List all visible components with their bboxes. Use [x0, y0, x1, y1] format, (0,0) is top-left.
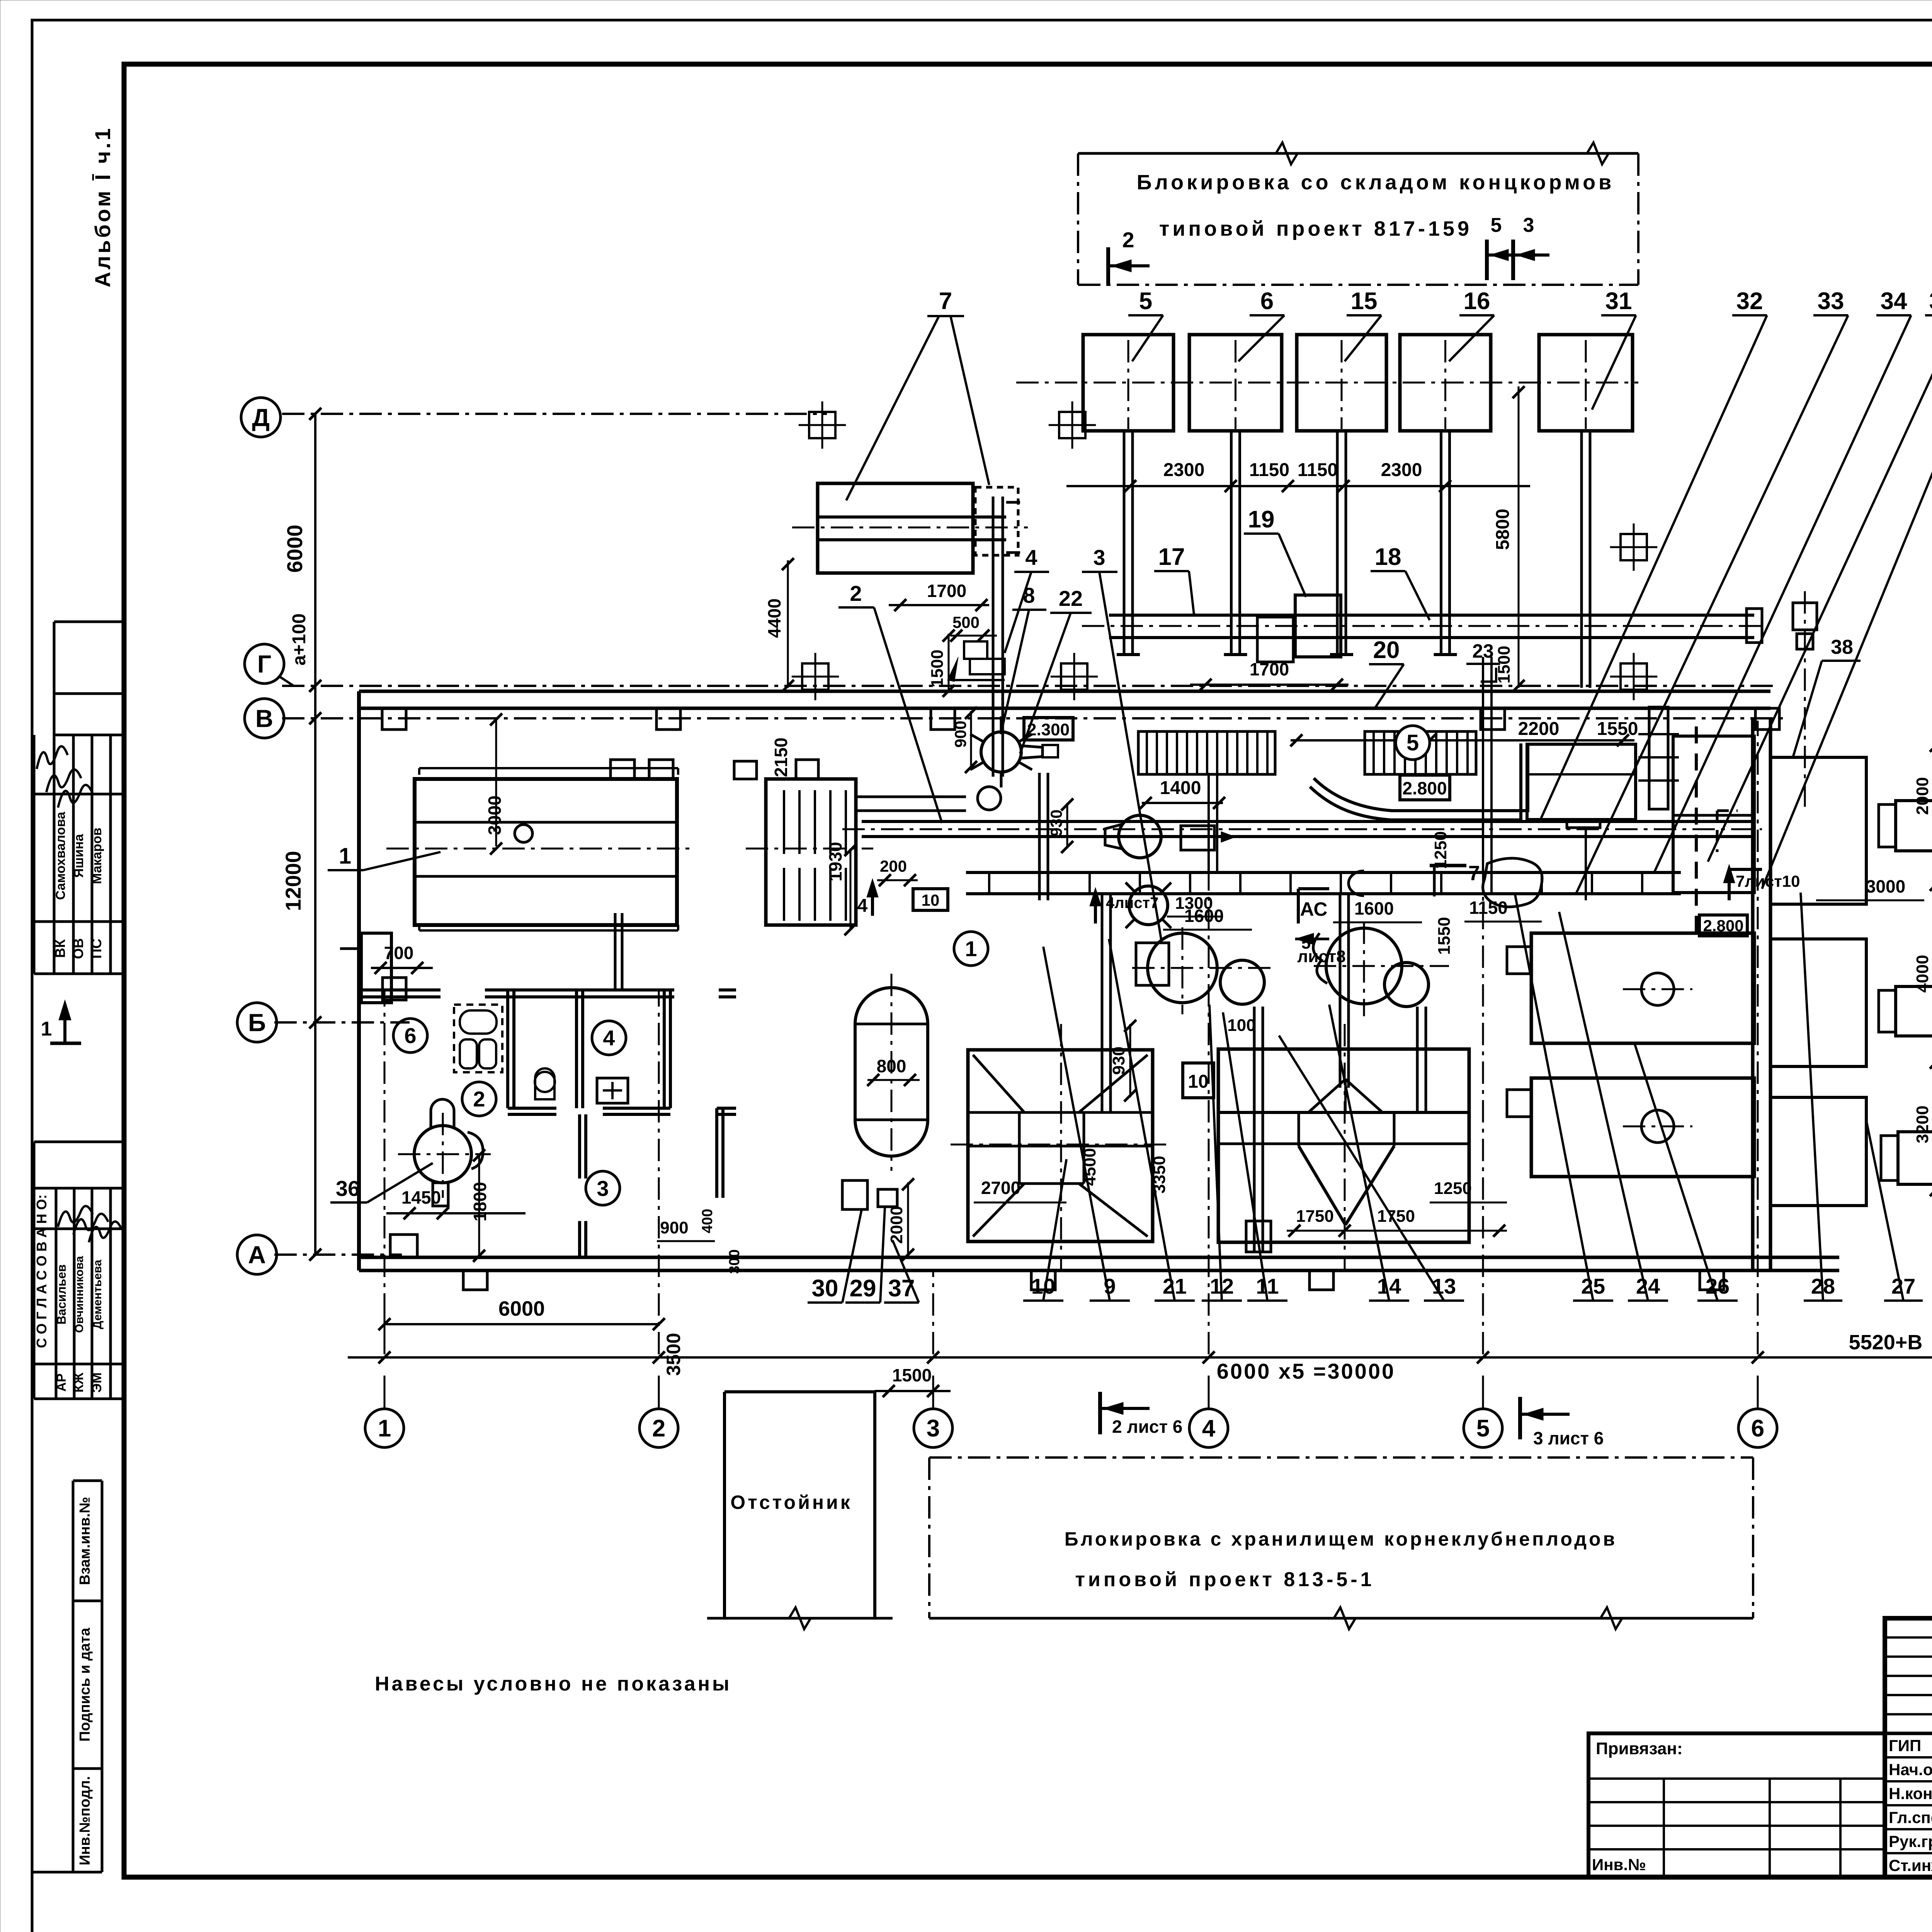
svg-text:2 лист 6: 2 лист 6 [1112, 1417, 1182, 1437]
svg-text:37: 37 [888, 1275, 915, 1302]
svg-text:3: 3 [1523, 214, 1534, 236]
mixer outlet duct [1038, 773, 1041, 900]
svg-text:Рук.гр.: Рук.гр. [1889, 1832, 1932, 1850]
svg-text:33: 33 [1818, 288, 1844, 315]
south wall pilasters [463, 1270, 487, 1290]
lamp unit 3 [1898, 1132, 1932, 1184]
svg-text:1550: 1550 [1435, 917, 1454, 955]
svg-text:Овчинникова: Овчинникова [73, 1256, 86, 1333]
bottom dim line 6000x5 [348, 1356, 1932, 1359]
machine 1 outlet duct [614, 913, 617, 990]
east partition of room3 [715, 1108, 718, 1198]
svg-text:2300: 2300 [1381, 460, 1422, 480]
axis D line [282, 413, 827, 415]
svg-text:ПС: ПС [88, 939, 104, 959]
east wing units [1770, 757, 1866, 904]
vertical duct between hoppers [1253, 1007, 1256, 1252]
svg-text:24: 24 [1636, 1274, 1660, 1298]
mixer wheel lower [1129, 886, 1168, 925]
axis G line [282, 685, 1777, 687]
svg-text:Инв.№: Инв.№ [1592, 1855, 1646, 1874]
svg-text:2000: 2000 [1913, 777, 1932, 815]
svg-text:31: 31 [1605, 288, 1632, 315]
svg-text:4лист7: 4лист7 [1106, 895, 1158, 912]
svg-text:7: 7 [939, 288, 952, 315]
elevation 2.300 box [1024, 718, 1073, 740]
overhead conveyor 17-18 [1109, 614, 1754, 617]
svg-text:400: 400 [699, 1209, 716, 1233]
partition room4 west [575, 990, 578, 1108]
svg-text:2150: 2150 [771, 738, 791, 777]
svg-text:29: 29 [850, 1275, 876, 1302]
svg-text:1: 1 [339, 844, 351, 869]
svg-text:32: 32 [1736, 288, 1763, 315]
svg-text:4400: 4400 [764, 599, 784, 638]
svg-text:Г: Г [257, 650, 271, 678]
conveyor stub right of grate [856, 796, 966, 798]
svg-text:ОВ: ОВ [70, 938, 86, 959]
svg-text:Ст.инж.: Ст.инж. [1889, 1856, 1932, 1874]
privyazan block [1588, 1733, 1885, 1877]
svg-text:16: 16 [1464, 288, 1490, 315]
svg-text:Васильев: Васильев [54, 1264, 68, 1325]
svg-text:5800: 5800 [1493, 509, 1513, 550]
cloud blob [1483, 858, 1542, 907]
svg-text:3 лист 6: 3 лист 6 [1533, 1428, 1604, 1448]
svg-text:1250: 1250 [1431, 831, 1450, 869]
svg-text:6000: 6000 [498, 1297, 545, 1320]
svg-text:Взам.инв.№: Взам.инв.№ [77, 1497, 93, 1585]
small mixer circle [978, 787, 1001, 810]
svg-text:18: 18 [1375, 544, 1401, 570]
svg-text:10: 10 [1188, 1071, 1208, 1092]
svg-text:типовой проект 817-159: типовой проект 817-159 [1159, 217, 1472, 240]
svg-text:Подпись и дата: Подпись и дата [77, 1628, 93, 1742]
conveyor 7 hatched box [975, 487, 1018, 555]
svg-text:300: 300 [726, 1249, 743, 1274]
svg-text:1450: 1450 [401, 1187, 441, 1207]
partition room6 [506, 990, 509, 1108]
dim 1700 mid [1190, 684, 1349, 686]
flag 7 sheet 10 [1729, 868, 1762, 871]
room5 east dashed partition [1695, 726, 1698, 943]
flag 2 sheet 6 [1098, 1392, 1102, 1434]
machine 1 drive circle [515, 825, 532, 842]
svg-text:Дементьева: Дементьева [91, 1260, 104, 1329]
svg-text:39: 39 [1929, 288, 1932, 315]
dim 1500 near sump [875, 1390, 951, 1392]
room 5 label [1396, 726, 1430, 760]
svg-text:1: 1 [378, 1415, 391, 1442]
svg-text:1600: 1600 [1354, 898, 1394, 918]
axis circle A [237, 1235, 277, 1274]
svg-text:лист8: лист8 [1297, 947, 1346, 966]
flag 3 sheet 6 [1518, 1397, 1522, 1439]
elevation 2.800 box room5 [1400, 775, 1450, 800]
svg-text:5: 5 [1491, 214, 1502, 236]
svg-text:Н.контр.: Н.контр. [1889, 1784, 1932, 1803]
svg-text:2300: 2300 [1163, 460, 1205, 480]
svg-text:5: 5 [1406, 730, 1419, 755]
svg-text:Д: Д [252, 403, 270, 431]
svg-text:15: 15 [1351, 288, 1378, 315]
svg-text:100: 100 [1227, 1016, 1255, 1035]
svg-text:1400: 1400 [1160, 778, 1201, 798]
svg-text:6: 6 [1751, 1415, 1764, 1442]
svg-text:4: 4 [1025, 545, 1037, 570]
svg-text:27: 27 [1891, 1274, 1915, 1298]
elevator 19 box [1295, 595, 1341, 657]
svg-text:3500: 3500 [663, 1333, 684, 1376]
svg-text:Навесы условно не показаны: Навесы условно не показаны [375, 1673, 731, 1695]
dim 6000 axes 1-2 [384, 1323, 659, 1325]
svg-text:1700: 1700 [927, 581, 966, 601]
svg-text:3: 3 [927, 1415, 940, 1442]
svg-text:900: 900 [951, 721, 969, 748]
rooms north partition [361, 988, 440, 992]
title block staff rows [1885, 1756, 1932, 1759]
small valve assembly [964, 641, 987, 659]
axis circle B [237, 1003, 277, 1042]
block: link to root-crop storage [929, 1456, 1753, 1459]
left stamp: soglasovano block [34, 1141, 124, 1143]
mixer wheel 22 [981, 732, 1021, 772]
svg-text:1700: 1700 [1250, 659, 1289, 679]
northeast machines [1527, 744, 1636, 820]
north wall [359, 690, 1770, 693]
svg-text:1250: 1250 [1434, 1179, 1472, 1198]
svg-text:типовой проект 813-5-1: типовой проект 813-5-1 [1075, 1568, 1374, 1591]
svg-text:10: 10 [922, 891, 940, 909]
svg-text:19: 19 [1248, 506, 1275, 533]
room1 floor drain [390, 1235, 417, 1258]
left vertical dim chain [314, 414, 316, 1255]
svg-text:5: 5 [1476, 1415, 1490, 1442]
axis B line [274, 1021, 410, 1024]
lamp unit 1 [1896, 801, 1932, 851]
main longitudinal conveyor [862, 820, 1753, 823]
stairs hatch 2 [1365, 731, 1476, 774]
svg-text:1930: 1930 [825, 842, 845, 881]
dim 1450 [386, 1212, 526, 1214]
axis circle G [245, 644, 284, 684]
svg-text:КЖ: КЖ [71, 1372, 86, 1393]
svg-text:4: 4 [1202, 1415, 1216, 1442]
west wall [357, 691, 361, 1270]
flag 4 up [871, 885, 874, 916]
svg-text:6: 6 [404, 1024, 416, 1048]
shower cabin [454, 1005, 502, 1072]
svg-text:7лист10: 7лист10 [1736, 872, 1800, 890]
svg-text:В: В [255, 704, 273, 732]
axis V line [282, 717, 1785, 719]
svg-text:3: 3 [1093, 545, 1105, 570]
stairs hatch 1 [1138, 731, 1275, 774]
svg-text:200: 200 [880, 857, 907, 875]
left stamp: lower labels strip [73, 1480, 102, 1482]
svg-text:2700: 2700 [981, 1178, 1020, 1198]
machine 1 (mixer line) [415, 779, 677, 925]
toilet fixtures [535, 1072, 555, 1092]
svg-text:Блокировка с хранилищем ко: Блокировка с хранилищем корнеклубнеплодо… [1065, 1528, 1617, 1550]
svg-text:6000: 6000 [282, 525, 307, 573]
svg-text:6000 х5 =30000: 6000 х5 =30000 [1217, 1359, 1395, 1383]
dim 1700/500 left [889, 604, 989, 606]
svg-text:Нач.отд.: Нач.отд. [1889, 1760, 1932, 1779]
svg-text:900: 900 [660, 1218, 688, 1237]
svg-text:Макаров: Макаров [90, 828, 104, 884]
block: link to concentrate feed store [1078, 152, 1638, 155]
svg-text:А: А [248, 1241, 266, 1269]
svg-text:22: 22 [1059, 586, 1083, 611]
pump circles cluster 1 [1148, 933, 1217, 1003]
lamp unit 2 [1896, 986, 1932, 1036]
bins centerline [1016, 382, 1638, 384]
elevation 2.800 box east [1699, 915, 1747, 936]
feed bins row [1083, 335, 1173, 431]
svg-text:5520+В: 5520+В [1849, 1331, 1923, 1354]
svg-text:1300: 1300 [1175, 894, 1213, 913]
dim 700 [371, 967, 433, 969]
svg-text:2.800: 2.800 [1703, 917, 1743, 935]
column marks row [809, 412, 835, 438]
room3 west wall [578, 1114, 581, 1179]
svg-text:7: 7 [1468, 862, 1480, 885]
svg-text:2.300: 2.300 [1027, 720, 1070, 739]
svg-text:5: 5 [1139, 288, 1152, 315]
west porch step [361, 933, 391, 1003]
svg-text:1500: 1500 [892, 1365, 932, 1385]
svg-text:АР: АР [54, 1373, 69, 1391]
small box 10 center [1183, 1063, 1214, 1098]
east big machines [1531, 933, 1754, 1043]
vertical tank 800 [855, 988, 928, 1156]
svg-text:38: 38 [1831, 636, 1853, 658]
svg-text:ВК: ВК [52, 939, 68, 958]
svg-text:500: 500 [952, 613, 980, 631]
svg-text:1: 1 [41, 1018, 52, 1040]
right duct into hopper [1416, 1007, 1419, 1113]
svg-text:2: 2 [473, 1087, 485, 1111]
svg-text:С О Г Л А С О В А Н О:: С О Г Л А С О В А Н О: [34, 1194, 49, 1348]
section flags 5 and 3 [1485, 240, 1489, 280]
svg-text:4: 4 [603, 1026, 615, 1050]
bottom axis circles and risers [365, 1409, 404, 1447]
svg-text:8: 8 [1023, 583, 1035, 607]
svg-text:1500: 1500 [928, 650, 947, 687]
axis circle V [245, 699, 284, 738]
flag 4 sheet 7 [1094, 893, 1097, 923]
svg-text:12000: 12000 [281, 851, 305, 911]
small boxes near 29 30 37 [842, 1180, 867, 1209]
left stamp: upper tables [54, 621, 124, 623]
svg-text:Инв.№подл.: Инв.№подл. [77, 1776, 93, 1865]
svg-text:4000: 4000 [1913, 955, 1932, 993]
conveyor gear box [1181, 826, 1214, 850]
svg-text:ЭМ: ЭМ [90, 1372, 104, 1393]
east wall [1751, 718, 1755, 1270]
vertical drops mid [1207, 774, 1210, 872]
pear vessel on conveyor [1119, 815, 1161, 858]
svg-text:а+100: а+100 [289, 614, 310, 666]
room 5 enclosure [1314, 743, 1528, 811]
dim chain 2300-1150 [1066, 485, 1530, 487]
vertical riser right [1804, 591, 1806, 811]
svg-text:1150: 1150 [1298, 460, 1338, 480]
sump (Otstoynik) box [724, 1390, 875, 1393]
svg-text:1550: 1550 [1597, 719, 1638, 739]
section flag 2 [1106, 247, 1110, 286]
svg-text:14: 14 [1377, 1274, 1401, 1298]
dim 1400 [1142, 802, 1223, 804]
pump circles cluster 2 [1326, 928, 1402, 1004]
rooms south partition [508, 1107, 556, 1110]
svg-text:800: 800 [877, 1056, 906, 1076]
svg-text:20: 20 [1373, 637, 1400, 663]
svg-text:1750: 1750 [1296, 1207, 1334, 1226]
svg-text:1: 1 [965, 937, 977, 961]
svg-text:2000: 2000 [887, 1206, 906, 1244]
svg-text:2.800: 2.800 [1402, 778, 1447, 798]
svg-text:30: 30 [812, 1275, 838, 1302]
svg-text:Яшина: Яшина [71, 833, 86, 878]
svg-text:АС: АС [1300, 898, 1328, 920]
tank 36 [414, 1126, 471, 1183]
svg-text:Самохвалова: Самохвалова [53, 811, 68, 900]
svg-text:3200: 3200 [1913, 1105, 1932, 1143]
axis circle D [241, 398, 281, 437]
svg-text:Б: Б [248, 1009, 266, 1036]
dashed corner bracket [1717, 810, 1738, 812]
svg-text:2: 2 [652, 1415, 665, 1442]
svg-text:Блокировка со складом концк: Блокировка со складом концкормов [1137, 171, 1615, 194]
mixing hopper left [968, 1050, 1153, 1242]
svg-text:3: 3 [597, 1176, 609, 1201]
section flag 1 left [50, 1042, 81, 1045]
svg-text:4: 4 [857, 896, 868, 916]
bin drop pipes [1128, 340, 1129, 429]
mixing hopper center [1218, 1049, 1469, 1242]
small box 10 mid [913, 889, 948, 910]
svg-text:Альбом Ī ч.1: Альбом Ī ч.1 [90, 126, 115, 287]
svg-text:2: 2 [850, 581, 862, 605]
hopper feed shafts [1101, 894, 1104, 1113]
screw conveyor lower [966, 871, 1681, 874]
title block [1885, 1618, 1932, 1877]
svg-text:36: 36 [336, 1176, 360, 1201]
svg-text:ГИП: ГИП [1889, 1736, 1921, 1755]
svg-text:2200: 2200 [1518, 719, 1560, 739]
north wall pilasters [382, 708, 406, 730]
svg-text:1150: 1150 [1249, 460, 1289, 480]
svg-text:Отстойник: Отстойник [730, 1492, 852, 1513]
flag 7 mid [1430, 864, 1466, 867]
dim 2200 1550 [1291, 739, 1634, 742]
svg-text:930: 930 [1047, 810, 1065, 837]
hatch block (grate) [766, 779, 856, 925]
vertical duct from conveyor7 [992, 497, 995, 777]
svg-text:6: 6 [1260, 288, 1274, 315]
conveyor 7 housing [818, 483, 973, 573]
svg-text:3000: 3000 [1866, 876, 1905, 896]
room labels [393, 1019, 427, 1053]
axis A line [274, 1253, 402, 1256]
svg-text:Гл.спец.: Гл.спец. [1889, 1808, 1932, 1827]
svg-text:2: 2 [1122, 228, 1134, 252]
svg-text:Привязан:: Привязан: [1596, 1739, 1683, 1758]
svg-text:1150: 1150 [1469, 898, 1508, 918]
svg-text:34: 34 [1881, 288, 1907, 315]
svg-text:700: 700 [384, 943, 414, 963]
svg-text:3000: 3000 [485, 796, 505, 835]
partition room4 east [663, 990, 666, 1108]
south wall [359, 1256, 1839, 1259]
bin31 pipe flange [1567, 821, 1600, 828]
svg-text:17: 17 [1158, 544, 1185, 570]
